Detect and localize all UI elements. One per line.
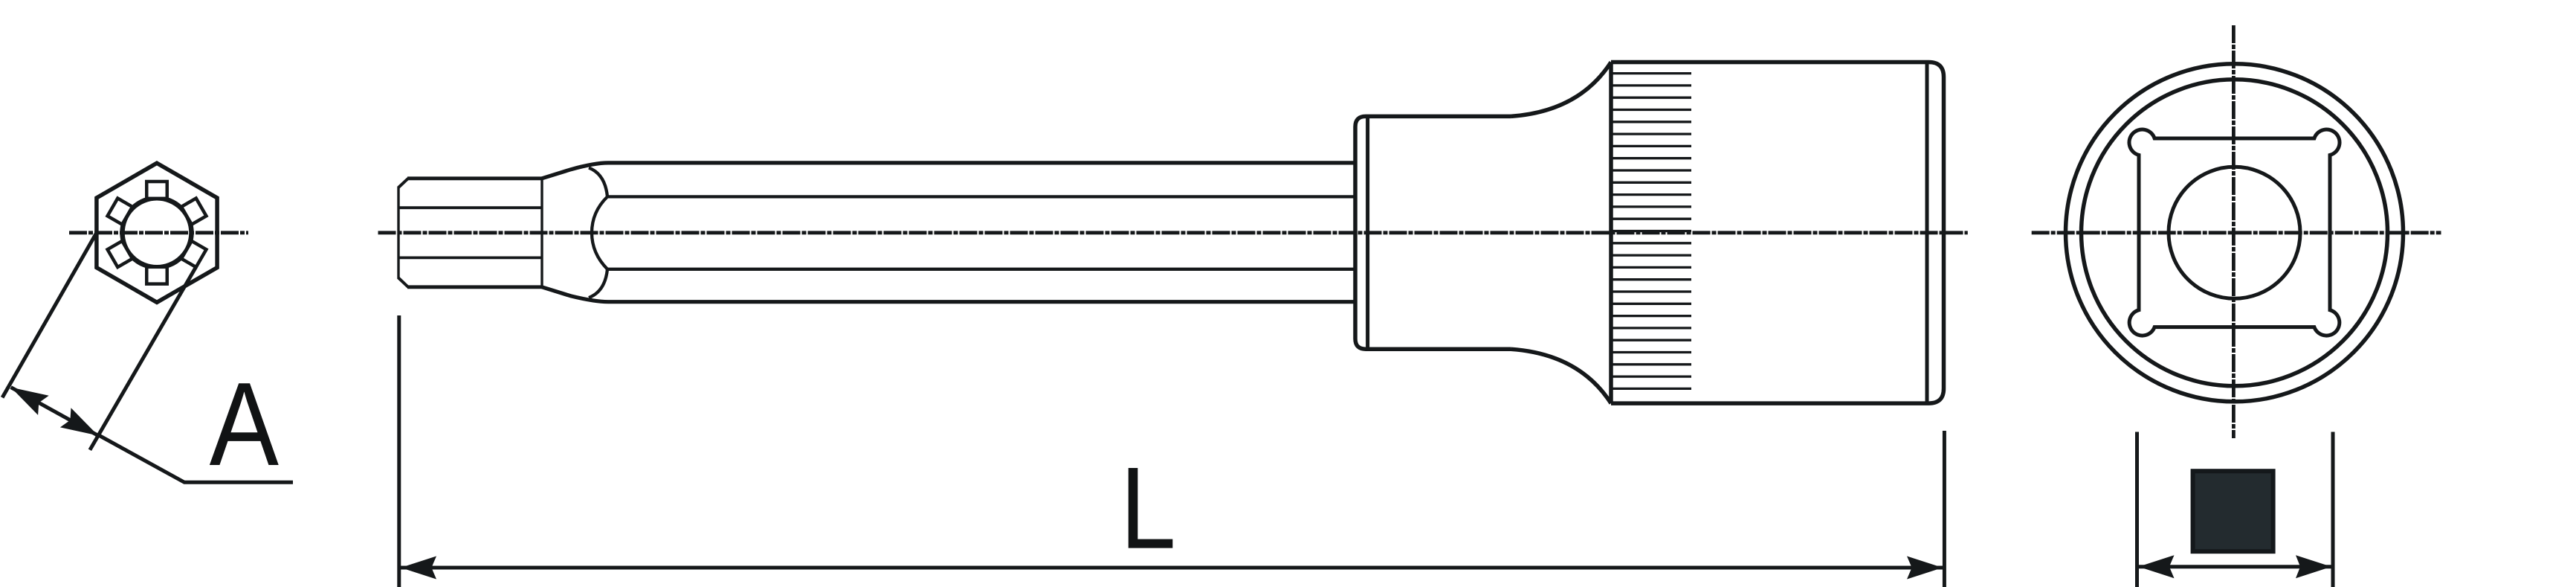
L right extension line	[1943, 431, 1946, 587]
spline tooth lower-left	[108, 241, 132, 267]
socket collar outline	[1355, 116, 1511, 349]
spline tooth top	[146, 182, 167, 199]
spline tooth bottom	[146, 267, 167, 284]
A extension line 1	[2, 233, 97, 398]
square size left extension line	[2135, 432, 2139, 587]
socket collar inner edge	[1366, 116, 1369, 349]
bit tip inner line lower	[398, 256, 542, 259]
shaft inner line upper	[607, 195, 1355, 198]
knurl left edge	[1609, 62, 1613, 404]
left view centerline	[69, 231, 248, 234]
spline tooth upper-right	[181, 198, 206, 224]
square size right extension line	[2331, 432, 2335, 587]
A extension line 2	[90, 267, 196, 450]
A dimension arrow line	[11, 388, 98, 436]
right view central circle	[2169, 167, 2300, 298]
right view inner circle	[2082, 80, 2388, 386]
square dimension line	[2139, 565, 2332, 568]
shaft transition bottom silhouette	[542, 287, 1355, 302]
spline tooth upper-left	[108, 198, 132, 224]
square arrowhead right	[2296, 555, 2331, 578]
bit tip inner line upper	[398, 206, 542, 209]
bit tip outline	[398, 179, 408, 287]
square arrowhead left	[2139, 555, 2175, 578]
left view spline circle	[123, 198, 192, 267]
socket body outline	[1611, 62, 1944, 404]
L arrowhead left	[401, 556, 436, 580]
shaft transition top silhouette	[542, 163, 1355, 179]
L left extension line	[397, 315, 401, 587]
right view horizontal centerline	[2032, 231, 2441, 234]
svg-text:A: A	[210, 358, 280, 490]
L arrowhead right	[1907, 556, 1943, 580]
right view outer circle	[2066, 64, 2404, 402]
square drive hole	[2129, 129, 2340, 336]
svg-text:L: L	[1120, 443, 1176, 574]
right view vertical centerline	[2232, 25, 2236, 438]
shaft transition central arc	[592, 196, 607, 269]
A arrowhead 1	[11, 388, 49, 415]
left view hexagon	[97, 163, 217, 302]
drive square filled	[2193, 471, 2273, 551]
bit tip base vertical	[540, 179, 543, 287]
A arrowhead 2	[60, 408, 98, 435]
side view centerline	[378, 231, 1968, 234]
L dimension line	[401, 566, 1943, 570]
A leader line	[97, 434, 293, 482]
socket right inner edge	[1925, 63, 1929, 402]
socket flare bottom	[1511, 349, 1611, 403]
socket flare top	[1511, 62, 1611, 117]
shaft transition top wing arc	[589, 168, 607, 197]
shaft transition bottom wing arc	[589, 269, 607, 298]
knurl lines	[1613, 74, 1692, 389]
spline tooth lower-right	[181, 241, 206, 267]
shaft inner line lower	[607, 268, 1355, 271]
